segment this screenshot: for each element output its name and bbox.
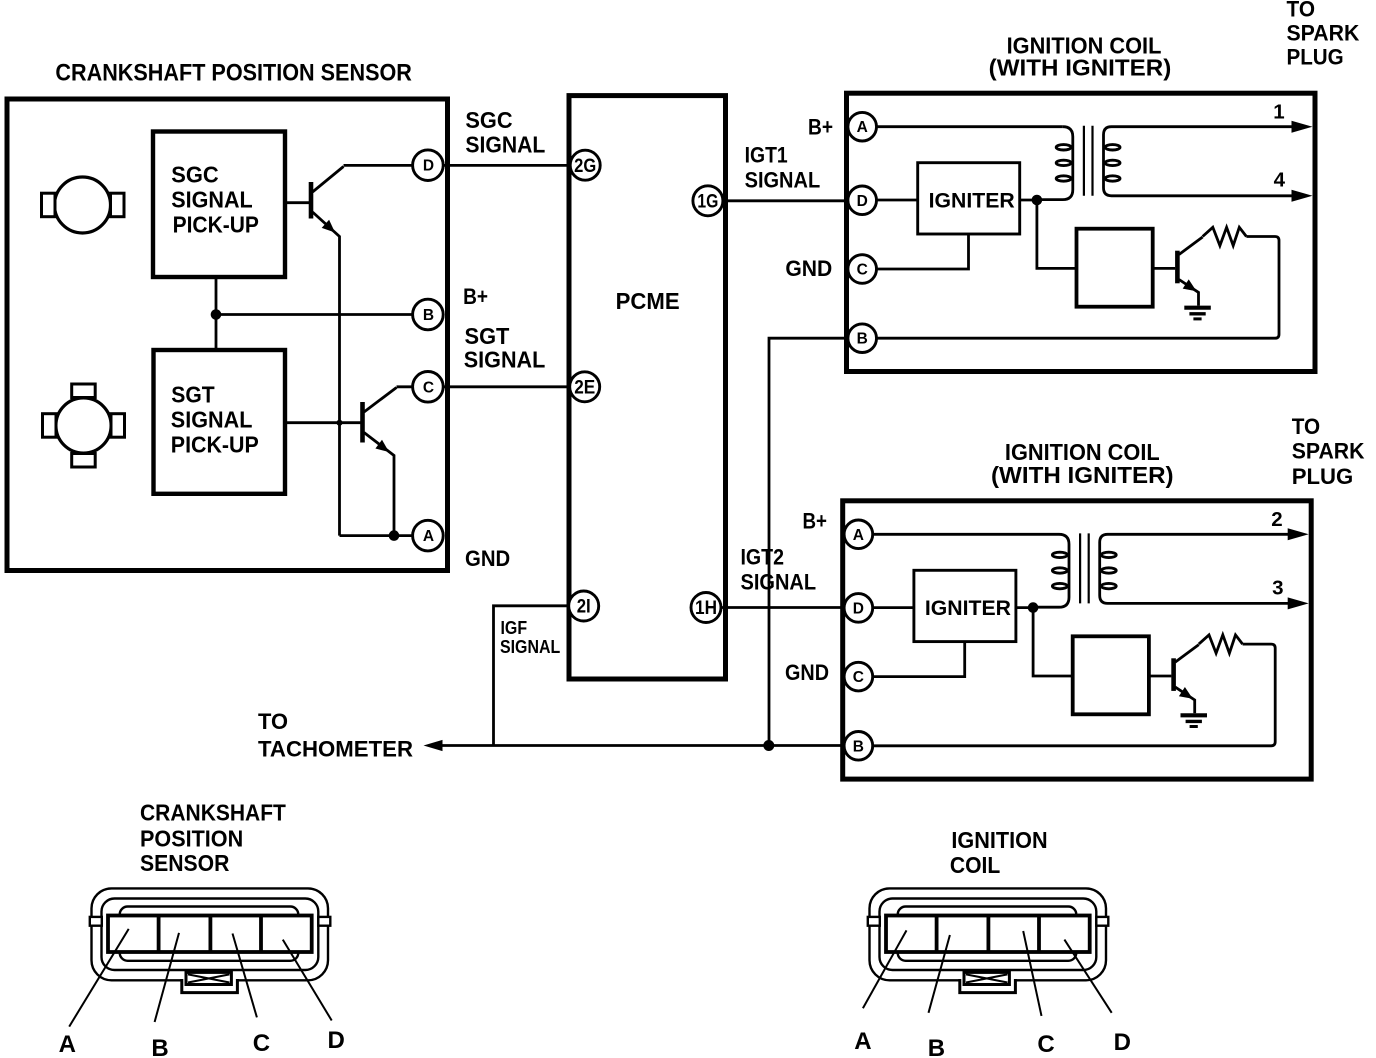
svg-text:SIGNAL: SIGNAL [171, 407, 253, 433]
svg-text:PICK-UP: PICK-UP [171, 431, 259, 457]
svg-text:SPARK: SPARK [1292, 439, 1366, 464]
svg-text:SIGNAL: SIGNAL [464, 347, 546, 373]
svg-text:D: D [1114, 1029, 1131, 1056]
svg-text:2G: 2G [574, 156, 596, 177]
svg-text:A: A [423, 528, 434, 545]
svg-text:CRANKSHAFT POSITION SENSOR: CRANKSHAFT POSITION SENSOR [55, 60, 412, 87]
svg-text:1: 1 [1273, 100, 1284, 123]
svg-text:(WITH IGNITER): (WITH IGNITER) [989, 55, 1172, 81]
svg-text:PCME: PCME [616, 288, 680, 314]
svg-text:SGC: SGC [171, 162, 218, 188]
svg-text:SIGNAL: SIGNAL [171, 187, 252, 213]
svg-text:2E: 2E [574, 377, 595, 398]
svg-text:SGC: SGC [465, 107, 512, 133]
svg-text:SIGNAL: SIGNAL [465, 132, 545, 158]
svg-text:D: D [328, 1027, 345, 1054]
svg-text:2: 2 [1271, 508, 1282, 531]
svg-text:B: B [423, 307, 434, 324]
svg-text:TO: TO [1287, 0, 1316, 22]
svg-text:PLUG: PLUG [1287, 45, 1344, 70]
svg-text:3: 3 [1272, 577, 1283, 600]
svg-text:PLUG: PLUG [1292, 464, 1354, 489]
svg-text:B+: B+ [463, 284, 488, 309]
svg-text:TACHOMETER: TACHOMETER [258, 737, 413, 762]
svg-text:B+: B+ [803, 509, 828, 534]
svg-text:C: C [423, 379, 434, 396]
svg-text:1G: 1G [697, 191, 718, 212]
svg-text:IGT2: IGT2 [741, 545, 785, 570]
svg-text:SIGNAL: SIGNAL [500, 637, 560, 657]
svg-text:TO: TO [258, 709, 288, 734]
svg-text:1H: 1H [695, 598, 717, 619]
svg-text:GND: GND [465, 546, 510, 571]
svg-text:IGT1: IGT1 [745, 143, 788, 168]
svg-text:(WITH IGNITER): (WITH IGNITER) [991, 462, 1174, 488]
svg-text:B: B [151, 1035, 168, 1058]
svg-text:D: D [423, 158, 434, 175]
svg-text:CRANKSHAFT: CRANKSHAFT [140, 800, 286, 826]
svg-text:4: 4 [1274, 169, 1286, 192]
svg-text:A: A [59, 1031, 76, 1058]
svg-text:GND: GND [785, 660, 829, 685]
svg-text:COIL: COIL [950, 852, 1000, 878]
svg-text:SENSOR: SENSOR [140, 850, 230, 876]
svg-text:B: B [928, 1035, 945, 1058]
svg-text:SIGNAL: SIGNAL [741, 570, 817, 595]
svg-text:2I: 2I [577, 597, 591, 618]
svg-text:SIGNAL: SIGNAL [745, 167, 821, 192]
svg-text:SGT: SGT [171, 382, 214, 408]
svg-text:SPARK: SPARK [1287, 21, 1361, 46]
svg-text:TO: TO [1292, 414, 1320, 439]
svg-text:PICK-UP: PICK-UP [173, 211, 259, 237]
svg-text:IGNITION: IGNITION [951, 827, 1047, 853]
svg-text:IGF: IGF [501, 618, 528, 638]
svg-text:GND: GND [785, 256, 832, 281]
svg-text:B+: B+ [808, 115, 833, 140]
svg-text:POSITION: POSITION [140, 826, 243, 852]
svg-text:C: C [253, 1030, 270, 1057]
svg-text:A: A [854, 1028, 871, 1055]
svg-text:C: C [1037, 1031, 1054, 1058]
svg-text:SGT: SGT [465, 323, 510, 349]
